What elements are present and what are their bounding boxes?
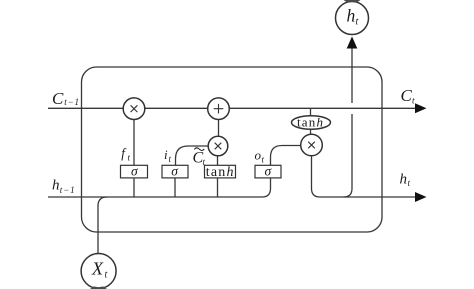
svg-text:C: C [52, 89, 64, 108]
svg-text:t−1: t−1 [60, 185, 76, 195]
svg-text:X: X [91, 259, 104, 279]
svg-text:h: h [400, 172, 408, 188]
svg-text:h: h [52, 178, 60, 194]
svg-text:tanh: tanh [297, 115, 324, 130]
svg-text:t: t [128, 153, 131, 163]
svg-text:t: t [169, 154, 172, 164]
svg-text:t: t [105, 270, 108, 281]
svg-text:t: t [356, 17, 359, 28]
svg-text:o: o [255, 148, 262, 163]
svg-text:h: h [347, 6, 356, 26]
svg-text:t−1: t−1 [64, 97, 80, 107]
svg-text:f: f [121, 145, 127, 160]
svg-text:C: C [401, 86, 413, 105]
svg-text:tanh: tanh [206, 165, 235, 180]
svg-text:t: t [408, 178, 411, 188]
svg-text:t: t [412, 96, 415, 106]
svg-text:i: i [164, 147, 168, 162]
